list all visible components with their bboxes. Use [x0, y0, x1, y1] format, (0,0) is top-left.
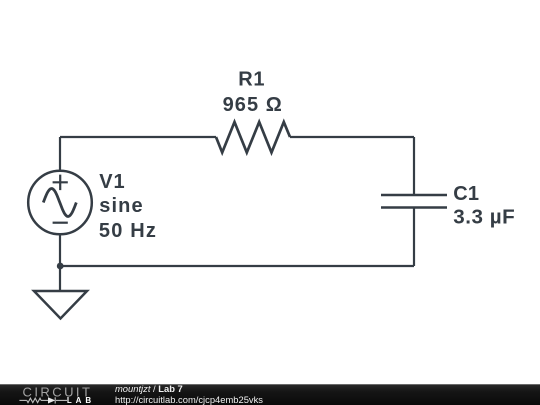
svg-text:mountjzt / Lab 7: mountjzt / Lab 7	[115, 383, 183, 394]
svg-text:965 Ω: 965 Ω	[223, 94, 283, 116]
svg-text:sine: sine	[99, 195, 143, 217]
svg-text:R1: R1	[238, 69, 265, 91]
svg-text:C1: C1	[453, 183, 479, 205]
svg-text:http://circuitlab.com/cjcp4emb: http://circuitlab.com/cjcp4emb25vks	[115, 394, 263, 405]
svg-text:50 Hz: 50 Hz	[99, 220, 157, 242]
svg-text:LAB: LAB	[67, 396, 95, 405]
svg-text:3.3 µF: 3.3 µF	[453, 206, 515, 229]
svg-text:V1: V1	[99, 171, 125, 193]
